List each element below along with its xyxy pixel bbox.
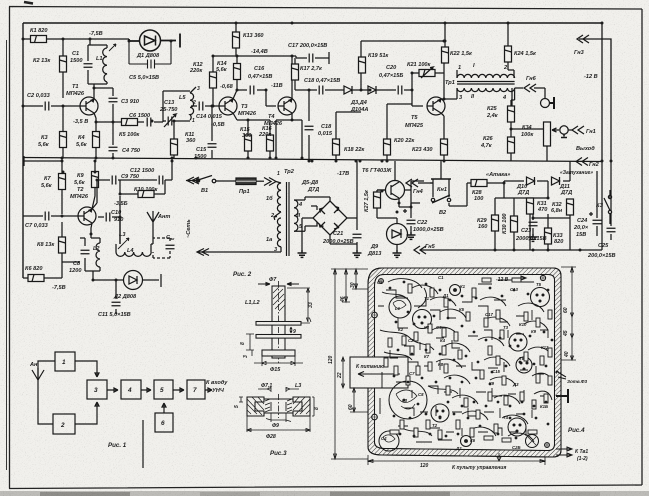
block 3 xyxy=(87,380,107,399)
resistor К22 xyxy=(444,23,446,47)
block 7 xyxy=(187,380,205,399)
resistor К10 xyxy=(138,191,154,198)
transistor Т3 xyxy=(219,97,237,115)
wire K18 top xyxy=(336,112,361,139)
jack Гн4 xyxy=(406,179,433,187)
dim right 45 xyxy=(571,317,574,338)
wire L4 ends xyxy=(116,217,153,252)
inductor L3 arrow xyxy=(118,238,129,249)
resistor К9 xyxy=(92,172,99,188)
MAIN SCHEMATIC xyxy=(22,22,616,315)
capacitor С15 xyxy=(208,144,217,148)
wire coil box xyxy=(80,238,100,280)
label -12В arrow xyxy=(496,276,526,283)
resistor К17 xyxy=(292,64,299,80)
diode Д11 xyxy=(552,177,560,185)
wire C6 row xyxy=(138,121,163,122)
pcb pads xyxy=(389,281,554,440)
button Кн1 xyxy=(430,174,471,206)
antenna Ант xyxy=(147,211,159,244)
resistor К24 xyxy=(508,23,514,78)
resistor К18 xyxy=(335,155,337,161)
resistor К13 xyxy=(233,32,240,48)
capacitor С16 xyxy=(237,90,276,106)
wire 2 to 3 xyxy=(75,402,99,424)
capacitor С14 xyxy=(197,105,219,107)
pcb resistors xyxy=(384,278,552,442)
dim Ф7,1 xyxy=(258,387,299,392)
resistor К2 xyxy=(60,56,67,72)
antenna Ан xyxy=(32,368,44,380)
mounting hole 3 xyxy=(371,414,378,421)
label К питанию xyxy=(356,364,385,370)
can С4 xyxy=(379,431,399,451)
wire tank L5 C13 xyxy=(163,87,197,158)
capacitor С12 xyxy=(159,176,163,185)
label Рис3 xyxy=(270,450,287,457)
bridge Д5-Д8 xyxy=(313,201,347,235)
diode Д3 xyxy=(344,86,352,94)
wire mid rail xyxy=(24,158,602,162)
transistor Т6 xyxy=(377,161,405,202)
pot core L3 drawing xyxy=(247,394,310,418)
capacitor С19 xyxy=(305,126,314,130)
dim Ф28 xyxy=(247,416,310,432)
dim 8r xyxy=(312,397,314,416)
coil L1 circle xyxy=(389,296,411,318)
transformer Тр1 xyxy=(444,70,515,106)
resistor К20 xyxy=(387,104,412,161)
resistor К23 xyxy=(441,139,448,155)
wire 1 to 3 xyxy=(75,361,99,377)
can cross xyxy=(526,435,539,448)
dim bottom 120 xyxy=(368,455,545,465)
resistor К26 xyxy=(508,137,515,153)
resistor К21 trimmer xyxy=(412,67,444,78)
jack Гн1 xyxy=(572,126,584,134)
FIG4 PCB xyxy=(328,267,588,471)
mounting hole 5 xyxy=(544,442,550,448)
fuse Пр1 xyxy=(236,178,264,185)
capacitor С18 xyxy=(319,86,323,95)
earphone Тлф xyxy=(541,97,555,109)
resistor К8 xyxy=(59,237,66,253)
resistor К1 xyxy=(31,36,47,43)
resistor К5 xyxy=(113,121,121,123)
diode Д2 pcb xyxy=(461,436,472,447)
capacitor C1 xyxy=(84,64,93,68)
dim 3 xyxy=(251,350,253,356)
wire bridge conn xyxy=(302,161,357,250)
diode Д1 pcb xyxy=(450,285,461,296)
capacitor С13 trimmer xyxy=(164,114,176,127)
capacitor С23 xyxy=(529,214,538,234)
jack Гн5 xyxy=(414,246,426,254)
mounting hole 2 xyxy=(540,275,546,281)
transistor Т1 xyxy=(80,97,98,115)
label L1 L2 xyxy=(245,300,260,306)
transformer Тр2 xyxy=(197,182,311,256)
capacitor С22 xyxy=(403,203,416,232)
wire T6 collector row xyxy=(404,161,441,190)
capacitor С9 xyxy=(112,176,116,185)
FIG3 coil drawings xyxy=(234,277,320,457)
diode Д9 xyxy=(387,218,408,250)
capacitor С20 xyxy=(398,86,402,95)
ground xyxy=(407,232,416,239)
power notch box xyxy=(350,357,408,388)
wire left bus xyxy=(22,23,24,278)
resistor К29 xyxy=(492,215,499,231)
wire right edge xyxy=(579,23,611,161)
label К пульту xyxy=(452,465,506,471)
capacitor С7 xyxy=(45,212,49,221)
transistor can Т3 xyxy=(509,333,527,351)
capacitor Сак xyxy=(153,238,175,258)
capacitor С11 xyxy=(112,280,121,314)
transistor can Т5 xyxy=(531,288,550,307)
divider line xyxy=(142,420,144,468)
jack arrows to Тр2 xyxy=(264,178,281,186)
diode Д10 xyxy=(527,177,535,185)
wire 4 to 5 xyxy=(141,388,151,392)
more interior traces xyxy=(378,290,548,438)
resistor К11 xyxy=(171,139,178,155)
capacitor С25 xyxy=(607,218,616,240)
wire T5 xyxy=(441,63,444,161)
dim left 46 xyxy=(342,269,350,302)
dim left 60 xyxy=(350,388,368,412)
wire T4 xyxy=(276,56,302,158)
wire T3 collector rail xyxy=(213,23,296,158)
resistor К32 xyxy=(569,199,571,250)
interior traces xyxy=(380,279,552,442)
dim 33 xyxy=(287,288,311,323)
resistor К16 xyxy=(267,135,274,151)
scan noise overlay (decorative) xyxy=(0,0,1,1)
capacitor С17 xyxy=(309,54,313,63)
bobbin L1 L2 drawing xyxy=(256,281,301,363)
label Рис4 xyxy=(568,427,585,434)
coil L3 circle xyxy=(389,381,427,419)
wire K27 bottom xyxy=(377,208,397,218)
resistor К19 xyxy=(359,57,366,73)
resistor К7 xyxy=(59,174,66,190)
block 1 xyxy=(55,352,75,371)
inductor L4 xyxy=(116,252,151,256)
wire C12 row xyxy=(62,161,172,244)
capacitor С10 xyxy=(106,213,110,222)
capacitor С8 xyxy=(81,250,90,254)
wire attack row xyxy=(487,161,570,216)
switch В1 xyxy=(186,176,236,185)
resistor К6 xyxy=(28,275,44,282)
wire top bus xyxy=(23,22,602,24)
capacitor C2 xyxy=(45,102,49,111)
jack Гн2 xyxy=(576,158,588,166)
dim left 22 xyxy=(342,357,345,388)
wire K26 bottom xyxy=(511,124,547,161)
pcb labels xyxy=(377,275,549,451)
wire signal row C17-C20 xyxy=(295,41,444,161)
dim 8 xyxy=(246,334,254,350)
potentiometer К34 xyxy=(544,122,560,161)
mounting hole 1 xyxy=(371,312,378,319)
wire 3 to 4 xyxy=(107,388,118,392)
wire R1 row xyxy=(23,39,63,98)
wire antenna xyxy=(38,361,55,424)
wire 5 to 7 xyxy=(173,388,184,392)
transistor can Т1 xyxy=(413,310,432,329)
dim Ф9 xyxy=(266,413,291,422)
ground xyxy=(393,250,402,257)
resistor К31 xyxy=(529,197,531,199)
wire T6 row xyxy=(395,181,424,207)
diode Д4 xyxy=(368,86,376,94)
capacitor С21 xyxy=(353,234,362,238)
arrow К пульту xyxy=(497,453,501,461)
capacitor С6 xyxy=(147,118,151,127)
transistor can Т4 xyxy=(508,418,526,436)
transistor Т5 xyxy=(427,97,445,115)
wire tank T1 xyxy=(63,39,129,99)
jack pin xyxy=(556,389,568,403)
phone symbol Гн1 xyxy=(560,126,572,138)
block 2 xyxy=(53,414,75,434)
resistor К14 xyxy=(234,64,241,80)
jack Гн3 xyxy=(577,35,589,43)
ground xyxy=(529,234,538,241)
diode Д2 xyxy=(93,271,161,290)
resistor К25 xyxy=(511,88,512,137)
block 5 xyxy=(154,380,173,399)
capacitor C5 xyxy=(129,41,171,69)
block 4 xyxy=(121,380,141,399)
wire D10 D11 junction xyxy=(547,180,549,182)
ground xyxy=(353,250,362,257)
diode Д1 xyxy=(129,30,180,51)
pcb wall hatched ring xyxy=(368,268,561,457)
dim Ф15 xyxy=(254,356,303,366)
dim left 120 xyxy=(331,269,368,459)
resistor К3 xyxy=(62,106,64,158)
dim 9 xyxy=(290,327,292,333)
capacitor С4 xyxy=(112,131,114,158)
resistor К12 xyxy=(210,72,217,88)
resistor К33 xyxy=(547,214,549,250)
dim Ф7 xyxy=(258,283,299,286)
wire bottom right rail xyxy=(420,161,611,250)
wire 6 to 5 xyxy=(162,403,166,413)
inductor L2 xyxy=(96,243,100,267)
mounting hole 4 xyxy=(378,278,384,284)
block 6 xyxy=(155,413,173,432)
transistor Т2 xyxy=(78,207,96,225)
FIG1 block diagram xyxy=(29,352,228,468)
capacitor С24 xyxy=(589,207,602,236)
wire T1 emitter xyxy=(94,88,113,158)
inductor L1 xyxy=(103,48,107,82)
capacitor С3 xyxy=(109,98,118,102)
resistor К28 xyxy=(471,180,487,187)
wire Гн6 xyxy=(515,88,545,98)
resistor К4 xyxy=(93,132,100,148)
ground xyxy=(298,250,307,257)
transistor can Т6 xyxy=(516,357,532,373)
dim 5 xyxy=(239,397,243,402)
transistor Т4 xyxy=(278,97,296,115)
resistor К27 xyxy=(377,190,386,192)
resistor К30 xyxy=(511,216,518,232)
jack Гн6 xyxy=(524,84,536,92)
wire C2 row xyxy=(23,105,80,107)
label К Тв1 xyxy=(556,447,588,462)
dim right 60 xyxy=(561,267,576,317)
transistor can Т2 xyxy=(431,404,449,422)
dim left 30 xyxy=(352,269,368,289)
resistor К15 xyxy=(245,135,252,151)
label Зотв xyxy=(556,371,587,384)
wire C15 K11 xyxy=(211,106,213,158)
wire T2 column xyxy=(23,156,95,278)
wire 7 out xyxy=(205,388,212,392)
dim right 40 xyxy=(561,338,576,360)
switch В3 xyxy=(604,190,612,224)
inductor L5 xyxy=(190,93,194,120)
